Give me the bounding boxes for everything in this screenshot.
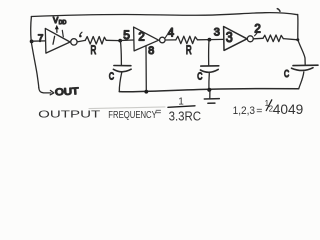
svg-text:C: C xyxy=(284,68,289,80)
label 1 inside U1 xyxy=(53,36,55,44)
svg-text:DD: DD xyxy=(59,20,67,26)
inverter U2 output bubble xyxy=(160,37,166,43)
node: pin8 / rail junction xyxy=(144,90,148,94)
capacitor C2 top plate xyxy=(201,65,219,67)
inverter U1 triangle xyxy=(45,28,70,53)
inverter U1 output bubble xyxy=(71,39,77,45)
svg-text:8: 8 xyxy=(148,45,154,57)
wire: U3 output to R3 xyxy=(253,37,263,40)
node: pin-3 junction xyxy=(208,38,212,42)
wire: R3 to right rail xyxy=(283,39,298,40)
stray pen tick on top wire xyxy=(277,9,280,12)
wire: node 5 to U2 input xyxy=(120,39,134,42)
wire: output tap hook to OUT arrow xyxy=(39,88,51,93)
wire: U1 input xyxy=(32,40,46,42)
wire: C1 to ground rail corner xyxy=(119,73,121,92)
capacitor C3 bottom curved plate xyxy=(292,68,314,71)
capacitor C1 top plate xyxy=(114,65,131,67)
wire: C2 to ground rail xyxy=(208,73,210,89)
svg-text:3: 3 xyxy=(226,30,233,46)
svg-text:R: R xyxy=(186,43,192,57)
svg-text:=: = xyxy=(155,106,161,118)
faint paper crease (decorative) xyxy=(89,107,165,109)
inverter U3 triangle xyxy=(224,27,247,51)
ground symbol xyxy=(209,91,211,99)
svg-text:C: C xyxy=(197,70,202,82)
pin 8 wire (U2 VSS to ground rail) xyxy=(145,46,147,92)
svg-text:OUT: OUT xyxy=(55,86,79,98)
wire: right vertical rail down to C3 xyxy=(298,14,306,65)
svg-text:1,2,3: 1,2,3 xyxy=(233,105,255,117)
inverter U2 triangle xyxy=(134,27,159,51)
wire: bottom ground rail xyxy=(119,89,298,92)
svg-text:OUTPUT: OUTPUT xyxy=(38,110,100,121)
resistor R1 xyxy=(85,37,106,45)
power VDD arrow xyxy=(56,28,58,33)
pin 6 label xyxy=(80,32,82,36)
wire: C3 down to bottom rail xyxy=(299,72,304,89)
inverter U3 output bubble xyxy=(247,36,253,42)
wire: top feedback rail xyxy=(31,13,297,17)
wire: node 5 down to C1 xyxy=(120,41,121,65)
svg-text:=: = xyxy=(256,105,262,117)
node: R3 / right rail junction xyxy=(296,38,299,41)
capacitor C1 bottom curved plate xyxy=(113,69,131,72)
svg-text:2: 2 xyxy=(254,24,260,36)
svg-text:7: 7 xyxy=(38,33,44,44)
wire: R1 to node 5 xyxy=(106,39,120,41)
svg-text:C: C xyxy=(109,70,114,82)
node: inverter U1 input junction xyxy=(30,40,34,44)
resistor R3 xyxy=(263,35,283,42)
wire: node 3 to U3 input xyxy=(209,38,223,40)
capacitor C2 bottom curved plate xyxy=(200,69,218,72)
wire: left feedback drop xyxy=(31,17,39,88)
node: C2 / rail / ground junction xyxy=(207,88,211,92)
capacitor C3 top plate xyxy=(293,64,318,66)
svg-text:4049: 4049 xyxy=(273,102,304,117)
wire: U2 output to R2 xyxy=(165,39,176,41)
wire: R2 to node 3 xyxy=(197,39,209,41)
pin 1 label (VDD pin) xyxy=(62,30,63,37)
svg-text:3.3RC: 3.3RC xyxy=(169,109,202,123)
node: pin-5 junction xyxy=(118,39,122,43)
wire: node 3 down to C2 xyxy=(208,40,210,66)
svg-text:FREQUENCY: FREQUENCY xyxy=(108,110,157,121)
wire: U1 output to R1 xyxy=(77,40,85,42)
svg-text:R: R xyxy=(91,43,97,57)
resistor R2 xyxy=(176,36,198,43)
svg-text:2: 2 xyxy=(138,32,144,44)
svg-text:3: 3 xyxy=(214,27,220,39)
svg-text:4: 4 xyxy=(168,27,175,39)
